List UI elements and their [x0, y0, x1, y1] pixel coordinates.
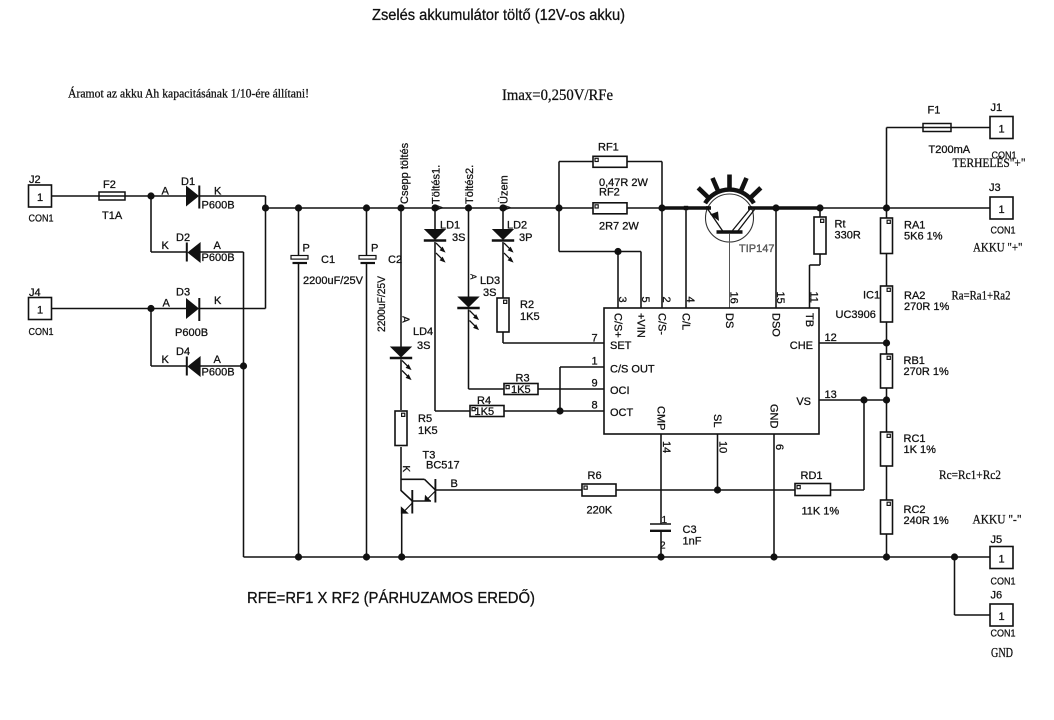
svg-text:1: 1 — [592, 356, 598, 368]
pin 1 C/S OUT — [592, 356, 655, 376]
svg-text:11K 1%: 11K 1% — [802, 506, 840, 518]
pin 14 CMP — [655, 406, 673, 453]
svg-text:15: 15 — [774, 292, 786, 304]
svg-text:4: 4 — [684, 297, 696, 303]
connector J5 AKKU - — [973, 512, 1022, 588]
resistor RC2 240R 1% — [881, 500, 949, 534]
resistor R5 1K5 — [395, 411, 438, 446]
resistor RD1 11K 1% — [795, 470, 839, 518]
svg-text:P600B: P600B — [202, 367, 235, 379]
wire node A down to D2 — [151, 196, 187, 252]
LD2 anode label A — [503, 205, 512, 211]
svg-text:1K 1%: 1K 1% — [904, 444, 937, 456]
svg-text:1: 1 — [662, 515, 668, 526]
svg-text:LD1: LD1 — [440, 220, 460, 232]
op-amp U1 IC1 UC3906 body — [604, 308, 819, 434]
wire D2 anode to negative vertical — [201, 251, 244, 253]
wire RA2 to RB1 — [886, 322, 888, 354]
wire T3 emitter to bottom rail — [398, 514, 405, 561]
diode D3 P600B — [175, 287, 222, 340]
svg-text:16: 16 — [728, 292, 740, 304]
svg-text:B: B — [451, 478, 458, 490]
wire R6 to RD1 — [616, 486, 795, 493]
LED LD3 3S — [457, 275, 500, 330]
svg-text:RF1: RF1 — [598, 142, 619, 154]
svg-text:A: A — [162, 186, 170, 198]
diode D4 P600B — [162, 346, 235, 379]
svg-text:SL: SL — [711, 414, 723, 427]
svg-text:TIP147: TIP147 — [739, 243, 774, 255]
pin 9 OCI — [592, 378, 630, 398]
wire TIP147 base to DS pin 16 — [729, 234, 731, 308]
connector J1 TERHELES + — [953, 102, 1026, 170]
svg-text:A: A — [469, 274, 478, 280]
node A label (D3 anode) — [163, 298, 171, 310]
svg-text:CON1: CON1 — [991, 576, 1016, 588]
svg-text:6: 6 — [773, 444, 785, 450]
fuse F2 T1A — [99, 179, 125, 222]
svg-text:VS: VS — [796, 396, 811, 408]
wire main positive rail (thin left) — [266, 207, 991, 209]
svg-text:K: K — [400, 466, 411, 473]
svg-text:UC3906: UC3906 — [836, 309, 876, 321]
svg-text:A: A — [214, 354, 222, 366]
svg-text:Ra=Ra1+Ra2: Ra=Ra1+Ra2 — [952, 288, 1011, 303]
svg-text:3S: 3S — [483, 287, 496, 299]
wire LD1 down to R4 — [435, 242, 470, 411]
wire LD3 down to R3 — [469, 310, 505, 390]
pin 2 C/S- — [656, 297, 673, 336]
wire GND pin 6 to bottom rail — [770, 434, 777, 561]
wire pin 5 stub — [640, 252, 642, 309]
svg-text:P600B: P600B — [175, 327, 208, 339]
svg-text:Imax=0,250V/RFe: Imax=0,250V/RFe — [502, 87, 613, 104]
wire DSO pin 15 stub — [772, 204, 779, 308]
svg-text:330R: 330R — [835, 230, 861, 242]
wire Rt to TB pin 11 — [810, 254, 821, 308]
wire R5 to T3 collector — [400, 447, 402, 491]
formula Imax — [502, 87, 613, 104]
svg-text:A: A — [400, 316, 411, 323]
LD3 anode label A — [469, 274, 478, 280]
svg-text:DSO: DSO — [770, 313, 782, 337]
wire D4 anode to negative vertical — [201, 362, 248, 369]
resistor RA1 5K6 1% — [881, 218, 943, 254]
T3 base label B — [451, 478, 458, 490]
pin 13 VS — [796, 389, 836, 408]
wire +VIN sense line — [559, 248, 641, 255]
resistor RB1 270R 1% — [881, 354, 949, 388]
svg-text:1K5: 1K5 — [520, 311, 540, 323]
wire LD1 branch from rail — [431, 204, 438, 229]
svg-text:2200uF/25V: 2200uF/25V — [376, 275, 388, 332]
connector J6 GND — [990, 590, 1016, 661]
svg-text:14: 14 — [660, 441, 672, 453]
pin 3 C/S+ — [612, 297, 629, 338]
svg-text:1K5: 1K5 — [511, 384, 531, 396]
wire LD2 branch from rail — [499, 204, 506, 229]
svg-text:Üzem: Üzem — [499, 175, 511, 204]
wire RB1 to RC1 — [886, 388, 888, 432]
LD1 anode label A — [435, 205, 444, 211]
svg-text:RFE=RF1 X RF2 (PÁRHUZAMOS ERED: RFE=RF1 X RF2 (PÁRHUZAMOS EREDŐ) — [247, 590, 535, 607]
svg-text:+VIN: +VIN — [635, 313, 647, 338]
svg-text:J6: J6 — [991, 590, 1003, 602]
capacitor C2 2200uF/25V — [359, 204, 402, 560]
resistor RF2 2R7 2W — [593, 187, 639, 233]
svg-text:AKKU "+": AKKU "+" — [973, 240, 1023, 255]
svg-text:J1: J1 — [991, 102, 1003, 114]
svg-text:C3: C3 — [683, 524, 697, 536]
wire D3 cathode to positive vertical — [199, 308, 266, 310]
wire pin 4 stub — [684, 206, 688, 308]
svg-text:5K6 1%: 5K6 1% — [904, 231, 943, 243]
node bottom rail to J5 — [951, 553, 958, 560]
svg-text:Töltés1.: Töltés1. — [431, 165, 443, 204]
svg-text:TERHELÉS"+": TERHELÉS"+" — [953, 155, 1026, 170]
svg-text:270R 1%: 270R 1% — [904, 301, 949, 313]
wire R2 to SET pin 7 — [503, 332, 604, 343]
svg-text:8: 8 — [592, 400, 598, 412]
wire RC2 to bottom rail — [883, 534, 890, 561]
node junction below F2 — [147, 192, 154, 199]
svg-text:1: 1 — [37, 304, 43, 316]
svg-text:LD4: LD4 — [413, 326, 433, 338]
svg-text:K: K — [162, 240, 170, 252]
resistor R4 1K5 — [470, 395, 504, 418]
transistor Q TIP147 with heatsink — [698, 175, 774, 256]
svg-text:R6: R6 — [588, 470, 602, 482]
svg-text:240R 1%: 240R 1% — [904, 515, 949, 527]
svg-text:C1: C1 — [321, 254, 335, 266]
wire RF1 right to pin 2 vertical — [627, 162, 666, 309]
resistor RA2 270R 1% — [881, 286, 950, 322]
IC1 reference labels — [836, 290, 881, 322]
svg-text:1: 1 — [37, 192, 43, 204]
svg-text:DS: DS — [723, 313, 735, 328]
svg-text:5: 5 — [639, 297, 651, 303]
svg-text:3S: 3S — [452, 232, 465, 244]
capacitor C3 1nF — [650, 515, 702, 552]
connector J2 — [29, 174, 54, 225]
svg-text:1: 1 — [999, 553, 1005, 565]
svg-text:1: 1 — [999, 611, 1005, 623]
resistor R3 1K5 — [504, 373, 538, 396]
svg-text:D3: D3 — [176, 287, 190, 299]
svg-text:D4: D4 — [176, 346, 190, 358]
svg-text:1nF: 1nF — [683, 536, 702, 548]
wire J2 to F2 — [52, 195, 100, 197]
svg-text:CMP: CMP — [655, 406, 667, 430]
pin 5 +VIN — [635, 297, 652, 338]
svg-text:GND: GND — [991, 645, 1013, 660]
LED LD4 3S — [390, 316, 433, 380]
pin 15 DSO — [770, 292, 787, 338]
pin 12 CHE — [790, 332, 837, 352]
svg-text:BC517: BC517 — [426, 460, 460, 472]
svg-text:12: 12 — [825, 332, 837, 344]
wire F1 to J1 — [951, 127, 990, 129]
wire J4 node down to D4 — [151, 309, 187, 367]
svg-text:RD1: RD1 — [801, 470, 823, 482]
wire RC1 to RC2 — [886, 466, 888, 500]
net label Uzem — [499, 175, 511, 204]
wire F2 to node A — [125, 195, 186, 197]
node rail to RA1 — [883, 204, 890, 218]
svg-text:220K: 220K — [587, 505, 613, 517]
wire LD4 to R5 — [400, 360, 402, 411]
wire RD1 to VS node — [831, 396, 868, 490]
svg-text:Zselés akkumulátor töltő (12V-: Zselés akkumulátor töltő (12V-os akku) — [372, 7, 625, 24]
svg-text:OCI: OCI — [610, 385, 630, 397]
svg-text:J3: J3 — [989, 182, 1001, 194]
svg-text:R3: R3 — [516, 373, 530, 385]
wire RF left vertical — [555, 162, 593, 252]
svg-text:K: K — [162, 354, 170, 366]
LED LD1 3S — [424, 220, 466, 263]
svg-text:10: 10 — [717, 441, 729, 453]
formula Rc=Rc1+Rc2 — [939, 467, 1001, 482]
connector J3 AKKU + — [973, 182, 1023, 255]
wire bridge cathode vertical — [262, 196, 269, 309]
wire pin 3 stub — [617, 252, 619, 309]
svg-text:1: 1 — [999, 123, 1005, 135]
svg-text:C/S OUT: C/S OUT — [610, 364, 655, 376]
svg-text:C/S-: C/S- — [656, 313, 668, 335]
svg-text:IC1: IC1 — [863, 290, 880, 302]
net label Csepp toltes — [399, 142, 411, 204]
svg-text:J4: J4 — [29, 287, 41, 299]
wire down to J6 — [955, 557, 991, 615]
svg-text:R2: R2 — [520, 299, 534, 311]
svg-text:3: 3 — [616, 297, 628, 303]
svg-text:F2: F2 — [103, 179, 116, 191]
wire VS pin 13 — [819, 396, 890, 403]
svg-text:A: A — [503, 205, 512, 211]
pin 4 C/L — [680, 297, 697, 331]
svg-text:P600B: P600B — [202, 252, 235, 264]
title — [372, 7, 625, 24]
wire main positive rail thick segment — [659, 206, 821, 210]
svg-text:9: 9 — [592, 378, 598, 390]
svg-text:Csepp töltés: Csepp töltés — [399, 142, 411, 204]
svg-text:D2: D2 — [176, 232, 190, 244]
svg-text:1K5: 1K5 — [475, 406, 495, 418]
svg-text:11: 11 — [808, 292, 820, 303]
svg-text:F1: F1 — [928, 105, 941, 117]
wire bridge anode vertical (negative) — [243, 252, 245, 557]
capacitor C1 2200uF/25V — [291, 204, 364, 560]
svg-text:C2: C2 — [388, 254, 402, 266]
svg-text:J5: J5 — [991, 534, 1003, 546]
LED LD2 3P — [492, 220, 533, 263]
net label Toltes1 — [431, 165, 443, 204]
pin 16 DS — [723, 292, 740, 329]
svg-text:270R 1%: 270R 1% — [904, 366, 949, 378]
wire J4 to D3 — [52, 305, 187, 312]
wire LD4 branch from rail — [397, 204, 404, 346]
svg-text:RF2: RF2 — [599, 187, 620, 199]
pin 7 SET — [592, 333, 632, 353]
svg-text:A: A — [214, 240, 222, 252]
wire LD3 branch from rail — [465, 204, 472, 296]
svg-text:K: K — [214, 295, 222, 307]
svg-text:13: 13 — [825, 389, 837, 401]
svg-text:Rc=Rc1+Rc2: Rc=Rc1+Rc2 — [939, 467, 1001, 482]
svg-text:T1A: T1A — [102, 210, 123, 222]
fuse F1 T200mA — [923, 105, 971, 157]
svg-text:Töltés2.: Töltés2. — [464, 165, 476, 204]
resistor RF1 0,47R 2W — [593, 142, 649, 190]
wire C3 to bottom rail — [657, 531, 664, 561]
formula RFE parallel — [247, 590, 535, 607]
svg-text:R5: R5 — [418, 413, 432, 425]
svg-text:1K5: 1K5 — [418, 425, 438, 437]
svg-text:CON1: CON1 — [29, 326, 54, 338]
svg-text:Áramot az akku Ah kapacitásána: Áramot az akku Ah kapacitásának 1/10-ére… — [68, 87, 309, 101]
svg-text:CON1: CON1 — [991, 225, 1016, 237]
diode D2 P600B — [162, 232, 235, 264]
svg-text:GND: GND — [768, 404, 780, 429]
wire R4 to OCT pin 8 — [504, 407, 604, 414]
wire RA1 to RA2 — [886, 254, 888, 287]
svg-text:P600B: P600B — [202, 200, 235, 212]
wire CHE pin 12 — [819, 339, 890, 346]
svg-text:2200uF/25V: 2200uF/25V — [303, 275, 364, 287]
resistor R2 1K5 — [497, 298, 540, 332]
wire T3 base / R6 line — [435, 489, 582, 491]
svg-text:OCT: OCT — [610, 407, 634, 419]
svg-text:AKKU "-": AKKU "-" — [973, 512, 1022, 527]
pin 8 OCT — [592, 400, 634, 420]
wire rail up to F1 — [887, 128, 924, 209]
node A label (D1 anode) — [162, 186, 170, 198]
transistor T3 BC517 — [401, 450, 460, 514]
svg-text:CON1: CON1 — [991, 628, 1016, 640]
svg-text:3S: 3S — [417, 340, 430, 352]
svg-text:1: 1 — [999, 204, 1005, 216]
pin 11 TB — [803, 292, 820, 328]
svg-text:SET: SET — [610, 340, 632, 352]
svg-text:CON1: CON1 — [29, 213, 54, 225]
pin 10 SL — [711, 414, 729, 453]
svg-text:J2: J2 — [29, 174, 41, 186]
svg-text:7: 7 — [592, 333, 598, 345]
wire SL pin 10 — [717, 434, 719, 490]
net label Toltes2 — [464, 165, 476, 204]
resistor RC1 1K 1% — [881, 432, 937, 466]
diode D1 P600B — [181, 176, 235, 212]
T3 collector label K — [400, 466, 411, 473]
formula Ra=Ra1+Ra2 — [952, 288, 1011, 303]
svg-text:A: A — [435, 205, 444, 211]
resistor R6 220K — [582, 470, 616, 517]
svg-text:LD2: LD2 — [507, 220, 527, 232]
note Aramot — [68, 87, 309, 101]
wire CMP pin 14 to C3 — [660, 434, 662, 524]
svg-text:C/L: C/L — [680, 313, 692, 330]
wire D1 cathode to positive vertical — [199, 195, 266, 197]
svg-text:2R7 2W: 2R7 2W — [599, 221, 639, 233]
svg-text:C/S+: C/S+ — [612, 313, 624, 338]
svg-text:CHE: CHE — [790, 340, 813, 352]
pin 6 GND — [768, 404, 786, 450]
svg-text:P: P — [303, 243, 310, 255]
wire R3 to OCI pin 9 — [538, 388, 604, 390]
svg-text:3P: 3P — [519, 232, 532, 244]
connector J4 — [29, 287, 54, 338]
svg-text:P: P — [371, 243, 378, 255]
resistor Rt 330R — [814, 204, 861, 254]
wire C/S OUT pin 1 jog — [560, 367, 604, 411]
svg-text:LD3: LD3 — [480, 275, 500, 287]
svg-text:2: 2 — [660, 297, 672, 303]
svg-text:A: A — [163, 298, 171, 310]
wire LD2 to R2 — [502, 242, 504, 298]
svg-text:D1: D1 — [181, 176, 195, 188]
svg-text:TB: TB — [803, 313, 815, 327]
wire bottom negative rail — [244, 556, 991, 558]
